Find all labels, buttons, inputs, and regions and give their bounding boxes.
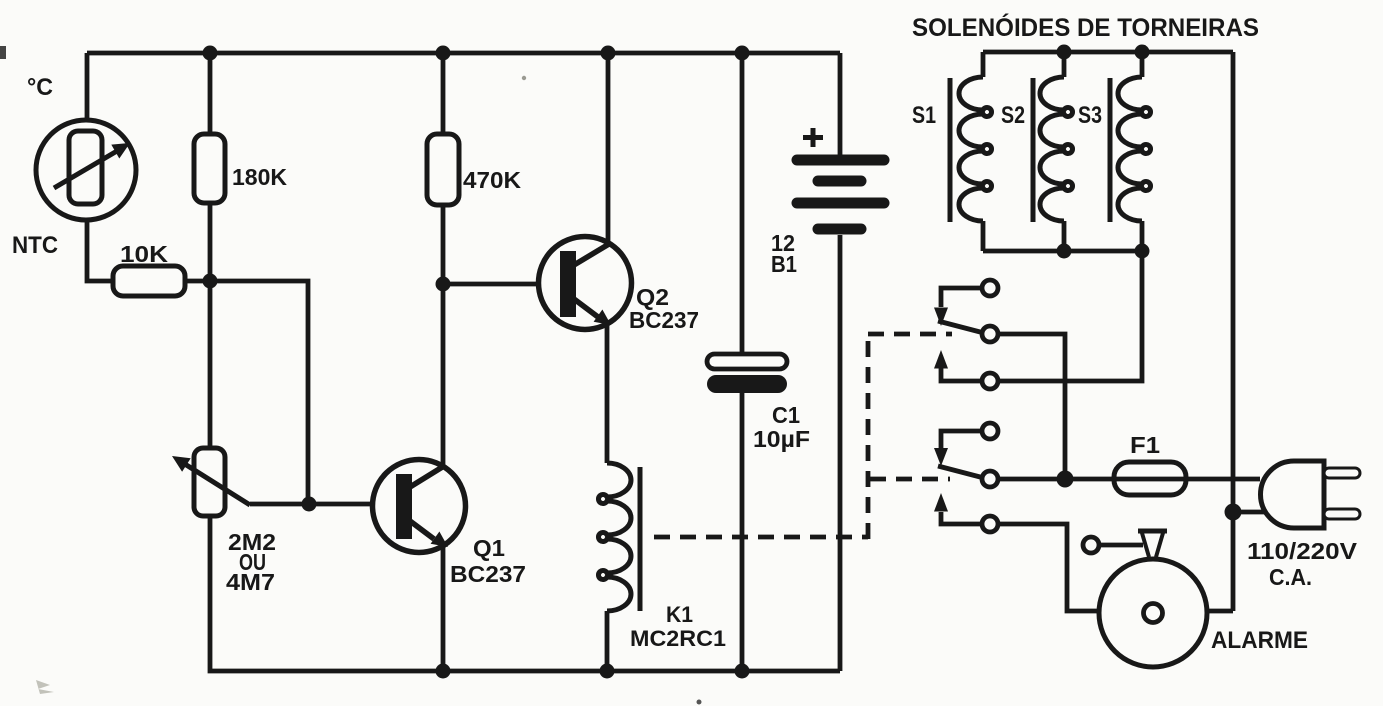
wire C1 top lead — [740, 53, 745, 354]
alarm bell — [1083, 531, 1207, 667]
wire solenoid bottom bus — [983, 249, 1142, 254]
battery plus sign — [803, 128, 823, 147]
svg-text:°C: °C — [27, 74, 53, 101]
wire plug branch — [1233, 510, 1264, 515]
wire 470K top lead — [441, 53, 446, 134]
wire Q1 base wire — [250, 502, 398, 507]
capacitor C1 — [707, 354, 787, 393]
battery B1 — [797, 160, 884, 229]
wire 180K bottom to 2M2 top — [208, 203, 213, 448]
wire upper NO contact to solenoid bus — [997, 252, 1142, 381]
solenoid S2 — [1033, 77, 1073, 222]
svg-text:180K: 180K — [232, 164, 287, 190]
wire 2M2 bottom and bottom rail — [210, 516, 840, 671]
relay contact set lower: arm indicators — [934, 431, 984, 524]
wire Q2 emitter to relay coil — [605, 324, 610, 463]
fuse F1 — [1114, 462, 1186, 495]
svg-text:S1: S1 — [912, 102, 936, 129]
switch arm upper — [938, 321, 984, 333]
svg-text:SOLENÓIDES DE TORNEIRAS: SOLENÓIDES DE TORNEIRAS — [912, 12, 1259, 42]
svg-text:470K: 470K — [463, 167, 521, 193]
svg-text:K1: K1 — [666, 602, 693, 627]
svg-text:Q1: Q1 — [473, 535, 505, 561]
wire relay coil bottom to rail — [605, 611, 610, 671]
resistor 470K — [427, 134, 459, 205]
resistor 10K — [113, 266, 185, 296]
wire alarm right lead — [1207, 609, 1233, 614]
svg-text:10µF: 10µF — [753, 426, 810, 452]
svg-text:BC237: BC237 — [450, 561, 526, 587]
trimpot 2M2 — [172, 448, 250, 516]
wire battery positive lead — [838, 53, 843, 155]
wire top supply rail — [87, 51, 840, 56]
dashed mechanical link from relay K1 to contacts — [654, 332, 952, 539]
wire S3 stubs — [1140, 52, 1145, 251]
svg-text:ALARME: ALARME — [1211, 627, 1308, 654]
AC plug — [1261, 461, 1361, 528]
thermistor NTC — [36, 120, 136, 220]
wire Q1 emitter to bottom rail — [441, 544, 446, 671]
wire S2 stubs — [1062, 52, 1067, 251]
svg-text:B1: B1 — [771, 251, 797, 277]
contact circles upper switch — [982, 280, 998, 296]
contact circles lower switch — [982, 423, 998, 439]
scan specks — [0, 46, 702, 705]
relay coil K1 — [598, 463, 640, 611]
wire AC return vertical — [1231, 52, 1236, 611]
wire 180K top lead — [208, 53, 213, 134]
transistor Q2 — [539, 237, 632, 330]
svg-text:4M7: 4M7 — [226, 569, 275, 595]
wire S1 stubs — [981, 52, 986, 251]
svg-text:S2: S2 — [1001, 102, 1025, 129]
svg-text:MC2RC1: MC2RC1 — [630, 626, 726, 651]
svg-text:10K: 10K — [120, 241, 168, 267]
wire 470K bottom to Q1 collector — [441, 205, 446, 467]
svg-text:S3: S3 — [1078, 102, 1102, 129]
wire NTC top lead — [85, 53, 90, 122]
wire battery negative lead — [838, 235, 843, 671]
wire upper contact common to lower common — [997, 334, 1065, 479]
wire C1 bottom lead — [740, 393, 745, 671]
transistor Q1 — [373, 460, 466, 553]
wire AC line through fuse F1 to plug — [997, 477, 1260, 482]
svg-text:NTC: NTC — [12, 232, 58, 259]
svg-text:BC237: BC237 — [629, 307, 699, 333]
svg-text:110/220V: 110/220V — [1247, 538, 1358, 564]
wire Q2 collector to top rail — [606, 53, 611, 242]
switch arm lower — [938, 466, 984, 478]
relay contact set upper: NC arm indicator — [934, 288, 984, 381]
resistor 180K — [194, 134, 225, 203]
svg-text:C.A.: C.A. — [1269, 564, 1312, 590]
wire 10K to Q1 base link — [185, 281, 308, 504]
solenoid S1 — [950, 77, 992, 222]
svg-text:C1: C1 — [772, 402, 800, 428]
svg-text:F1: F1 — [1130, 432, 1160, 458]
solenoid S3 — [1110, 77, 1151, 222]
wire solenoid top bus — [983, 50, 1233, 55]
wire Q2 base wire — [443, 282, 560, 287]
wire NTC bottom lead to 10K — [87, 218, 113, 281]
wire lower NO contact to alarm — [997, 524, 1100, 611]
